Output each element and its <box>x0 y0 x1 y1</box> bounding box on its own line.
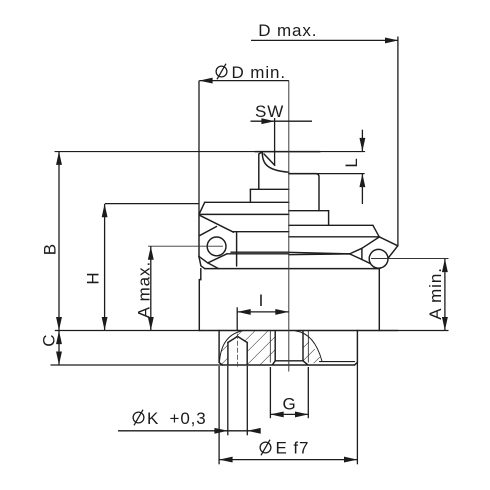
arrow G left <box>270 411 283 417</box>
svg-text:D max.: D max. <box>258 21 317 40</box>
spigot bottom-right chamfer <box>355 362 358 365</box>
dim D max line <box>251 39 399 41</box>
part centerline <box>288 81 290 372</box>
face line y=231.7 <box>234 231 289 233</box>
flange top y=202.3 <box>205 201 289 203</box>
hex edge diagonal on pin <box>264 154 275 166</box>
arrow H bottom <box>102 317 108 330</box>
spigot bottom y=365 <box>222 364 354 366</box>
dim D min line <box>199 80 288 82</box>
arrow E right <box>344 457 357 463</box>
thread G hole bottom <box>275 360 303 362</box>
step y=210.7 <box>289 210 329 212</box>
arrow B bottom <box>56 317 62 330</box>
ext flange bottom right (A min) <box>398 330 449 332</box>
right: step line y=173.6 <box>289 173 316 175</box>
arrow A max top <box>148 246 154 259</box>
svg-text:C: C <box>40 334 59 347</box>
ext spigot bottom left (C) <box>51 364 223 366</box>
dim L lower shaft <box>361 174 363 204</box>
svg-text:B: B <box>40 243 59 255</box>
svg-text:A max.: A max. <box>134 261 153 318</box>
svg-text:A min.: A min. <box>426 267 445 320</box>
left tommy hole circle <box>207 237 226 256</box>
flange bottom y=330.5 <box>199 330 398 332</box>
right upper chamfer diagonal <box>373 225 379 237</box>
spigot left edge <box>218 331 220 363</box>
dim H extension <box>105 203 199 205</box>
dim SW extension <box>274 118 276 165</box>
wire: top shoulder line y=151.6 (B/L extension + pin top) <box>55 151 365 153</box>
dim E line <box>219 459 357 461</box>
svg-text:L: L <box>342 157 361 167</box>
break line arc right <box>296 331 323 361</box>
pin step y=189.3 <box>250 188 288 190</box>
dim L lower extension line <box>289 173 365 175</box>
right tommy hole centerline tick (A min extension) <box>371 258 449 260</box>
ext K right <box>246 366 248 435</box>
hatch region right piece <box>303 337 322 365</box>
face line y=214.4 <box>199 213 288 215</box>
hole K walls <box>227 343 229 366</box>
dim H line <box>104 204 106 331</box>
ext K left <box>227 366 229 435</box>
diagonal to D-max corner <box>379 237 398 246</box>
left hex lower double line <box>231 251 289 253</box>
dim K line <box>118 430 253 432</box>
pin left edge <box>259 152 262 189</box>
svg-text:E f7: E f7 <box>276 439 310 458</box>
hex chamfer curve on pin <box>262 152 289 172</box>
arrow C bottom <box>56 352 62 365</box>
arrow SW <box>261 118 274 124</box>
hole K dashed centerline <box>237 334 239 369</box>
arrow K right <box>247 428 260 434</box>
left hex corner V notch <box>199 254 227 263</box>
thread G hole walls <box>274 331 276 361</box>
arrow L top <box>359 138 365 151</box>
arrow K left <box>214 428 227 434</box>
thread G exit chamfers <box>272 361 275 365</box>
V apex tail <box>208 263 219 269</box>
left hex edge vertical <box>198 214 200 257</box>
svg-text:K: K <box>147 409 159 428</box>
right hex double line converging <box>289 252 350 254</box>
arrow H top <box>102 204 108 217</box>
ext E right <box>356 363 358 464</box>
svg-text:H: H <box>83 271 102 284</box>
svg-text:G: G <box>283 395 297 414</box>
dim G line <box>270 413 308 415</box>
hex flat edge vertical x=236.6 <box>236 232 238 266</box>
ext G left <box>269 367 271 418</box>
arrow A min top <box>442 259 448 272</box>
dim D max extension (right edge) <box>397 37 399 246</box>
right lower chamfer diagonal <box>388 246 398 258</box>
face y=225.3 <box>289 224 373 226</box>
dim A max line <box>150 246 152 330</box>
break line arc left <box>219 331 243 364</box>
dim B line <box>58 151 60 330</box>
hex facet diagonal <box>199 215 233 232</box>
svg-text:+0,3: +0,3 <box>170 409 207 428</box>
vertical x=328.6 <box>328 211 330 226</box>
step corner + vertical x=319 <box>316 174 319 211</box>
svg-text:D min.: D min. <box>232 63 287 82</box>
arrow C top <box>56 331 62 344</box>
arrow D min <box>199 78 212 84</box>
face y=236.8 <box>289 236 379 238</box>
spigot right edge <box>356 331 358 363</box>
left body edge <box>199 269 201 331</box>
arrow A max bottom <box>148 317 154 330</box>
arrow L bottom <box>359 174 365 187</box>
right wedge <box>350 248 362 259</box>
dim I line <box>237 311 289 313</box>
flange top-left chamfer <box>199 202 204 213</box>
dim L upper shaft <box>361 130 363 152</box>
dim SW line <box>251 120 313 122</box>
hole K drill point <box>228 336 247 342</box>
svg-text:SW: SW <box>255 102 284 121</box>
ext flange bottom left <box>55 330 200 332</box>
label diameter symbol D min <box>216 64 227 80</box>
arrow A min bottom <box>442 317 448 330</box>
column left edge <box>249 189 251 202</box>
arrow I right <box>275 309 288 315</box>
right facet diagonals <box>362 237 379 248</box>
arrow G right <box>295 411 308 417</box>
arrow D max <box>385 37 398 43</box>
arrow B top <box>56 152 62 165</box>
right body edge <box>378 269 380 331</box>
dim A min line <box>444 259 446 331</box>
right tommy hole circle <box>369 249 388 268</box>
spigot bottom-left chamfer <box>219 362 222 365</box>
arrow E left <box>219 457 232 463</box>
label diameter symbol E f7 <box>260 440 271 456</box>
svg-text:I: I <box>259 291 265 310</box>
dim D min extension (left edge) <box>198 81 200 214</box>
ext E left <box>218 366 220 464</box>
label diameter symbol K +0,3 <box>133 410 144 426</box>
thread G major thin lines <box>269 331 271 362</box>
ext G right <box>307 367 309 418</box>
dim C line <box>58 331 60 366</box>
left tommy hole centerline tick (A max extension) <box>148 245 223 247</box>
body band top line y=268.6 <box>205 268 380 270</box>
small facet diagonal B <box>199 227 216 236</box>
hatch region left piece <box>219 331 275 365</box>
arrow I left <box>237 309 250 315</box>
left lower edge slant + chamfer <box>199 256 205 268</box>
dim I left extension <box>236 307 238 330</box>
chamfer ledge line y=361.6 <box>320 361 355 363</box>
